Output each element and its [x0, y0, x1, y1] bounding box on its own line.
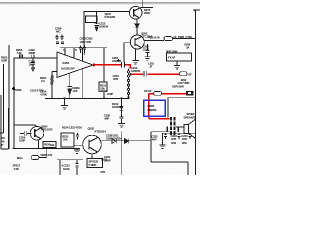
resistor box R230 — [43, 142, 56, 148]
diode D203 — [135, 24, 139, 35]
capacitor C232 — [164, 133, 167, 139]
op-amp IC201 triangle — [57, 52, 93, 78]
pin numbers on op-amp — [63, 48, 86, 56]
resistor box R213 — [99, 82, 107, 92]
ground below bottom rail — [61, 98, 68, 109]
wire: left bus x14 — [13, 58, 15, 149]
frame: bottom step box — [151, 132, 188, 175]
frame: right outer border — [193, 10, 200, 175]
transistor Q202 — [130, 35, 144, 49]
capacitor C230 — [119, 117, 123, 124]
wire: left box edge x1 — [1, 95, 9, 149]
node: bottom rail junctions — [64, 97, 66, 99]
wire: Q201 collector — [139, 0, 153, 8]
capacitor C233 — [177, 133, 180, 139]
wire: top rail to Q201 base — [84, 11, 130, 13]
capacitor C215 with ground — [144, 44, 150, 60]
resistor box R233 — [61, 133, 74, 147]
wire: red elbow into volume pot — [125, 65, 130, 69]
capacitor on red line B — [144, 71, 147, 77]
connector pill SP AF — [154, 91, 162, 95]
module box SPV233 — [87, 159, 103, 168]
wire: bottom cap bus — [163, 133, 196, 145]
speaker SP300 — [184, 119, 196, 138]
wire: op-amp top rail — [60, 47, 107, 49]
capacitor C234 — [188, 133, 191, 139]
wire: Q203 emitter to module — [91, 154, 93, 159]
wire: red bottom run to speaker pins — [149, 118, 170, 120]
connector pill AF_PWR_CTRL — [164, 37, 173, 41]
capacitor C229 — [25, 131, 26, 136]
speaker connector pins — [166, 117, 179, 135]
connector pill M.B+ — [31, 156, 39, 160]
wire: supply branch x104 — [103, 48, 105, 82]
resistor R204 on non-inverting branch — [51, 76, 53, 84]
highlight box J4306 (blue) — [144, 100, 166, 116]
ground bottom right — [159, 145, 165, 148]
ground mid-bottom left — [74, 148, 80, 153]
diode D211 (filled) — [125, 139, 129, 144]
wire: Q204 base with cap — [20, 133, 32, 135]
frame: speaker compartment — [168, 98, 196, 118]
ground below FX AF box — [174, 61, 180, 69]
transistor Q203 — [83, 135, 102, 154]
wire: non-inverting input line — [52, 70, 57, 72]
wire: op-amp top pins — [64, 48, 66, 55]
wire: Q201 emitter down — [136, 19, 138, 24]
capacitor C231 — [76, 133, 79, 140]
wire: red SP AF stub and pill — [149, 93, 154, 95]
wire: red AF line B part 2 — [147, 73, 179, 75]
scan noise overlay — [0, 0, 1, 1]
node: left bus junction — [12, 87, 15, 90]
capacitor C202 symbol — [32, 55, 34, 59]
wire: M.B+ line — [39, 148, 47, 157]
ground Q202 emitter — [132, 61, 138, 64]
wire: Q204 collector line — [14, 125, 37, 127]
relay box FX AF — [167, 53, 192, 61]
node: pot bottom junction — [127, 97, 129, 99]
wire: red SP line to speaker connector block — [162, 93, 187, 95]
wire: Q204 emitter — [38, 140, 40, 149]
capacitor C212b — [75, 164, 78, 167]
wire: inverting input line — [14, 57, 57, 59]
wire: Q202 emitter to ground — [135, 49, 137, 61]
capacitor C208A electrolytic below op-amp — [67, 87, 72, 95]
capacitor pair C203/C205 — [79, 46, 86, 54]
capacitor cluster C208/C209 — [56, 35, 64, 44]
ground mid — [118, 124, 125, 127]
capacitor C207 — [117, 59, 124, 68]
node: op-amp output (red dot) — [93, 63, 96, 66]
capacitor C212 electrolytic top — [94, 12, 98, 32]
volume pot VR201 — [127, 69, 129, 97]
capacitor C204 symbol between input lines — [31, 58, 35, 71]
resistor R203 symbol — [20, 54, 23, 58]
wire: speaker return line — [151, 131, 170, 133]
small component box top — [86, 16, 98, 23]
wire: Q202 base coupling — [124, 43, 130, 63]
wire: bottom rail — [45, 97, 129, 99]
op-amp bottom pin to cap — [70, 69, 83, 99]
wire: Q203 base — [74, 144, 83, 146]
connector pill AF — [179, 72, 187, 76]
wire: red AF line B — [131, 73, 143, 75]
transistor Q201 — [129, 6, 142, 19]
wire: red AF line A — [94, 64, 121, 66]
wire: Q203 collector line with diodes — [101, 140, 151, 142]
diode D212 — [119, 106, 123, 110]
diode D210 (open) — [112, 139, 116, 144]
wire: bottom rail — [13, 147, 80, 149]
wire: red down the left of J4306 — [148, 94, 150, 119]
node: pot wiper — [129, 73, 131, 75]
wire: bottom sub rail — [57, 160, 83, 175]
transistor Q204 — [30, 126, 44, 140]
wire: vertical from box corner down to op-amp rail — [83, 12, 85, 48]
wire: mid vertical with diode D212 — [121, 98, 123, 117]
scan edge gray band — [0, 2, 200, 4]
wire: long mid vertical lower — [121, 132, 123, 176]
wire: pin to speaker — [176, 126, 184, 128]
connector block on frame — [186, 91, 193, 96]
wire: Q202 collector to AF_PWR pill — [144, 39, 195, 41]
wire: left box edge x9 — [8, 45, 10, 149]
wire: non-inverting drop to bottom rail — [51, 71, 53, 98]
